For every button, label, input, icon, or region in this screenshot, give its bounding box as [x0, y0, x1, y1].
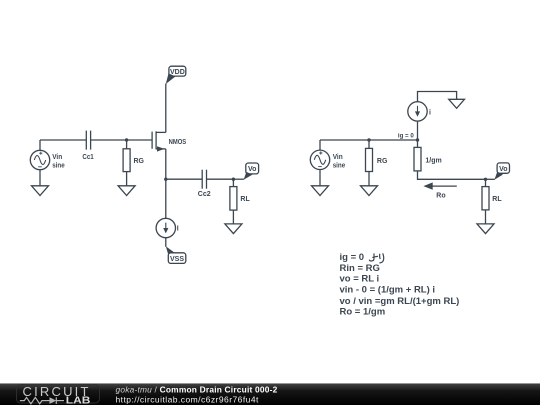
resistor 1/gm	[414, 147, 421, 171]
ground under RG (right)	[361, 186, 378, 196]
glyph yori	[369, 254, 383, 263]
wire current source top to ground	[418, 92, 457, 102]
footer bar	[0, 383, 540, 405]
svg-text:Vin: Vin	[333, 154, 343, 161]
wire Cc1 to gate node	[91, 139, 153, 141]
logo CIRCUIT text	[17, 385, 100, 403]
svg-text:ig = 0: ig = 0	[398, 132, 414, 139]
resistor RL (right)	[482, 187, 489, 210]
wire current source to 1/gm	[417, 121, 419, 147]
node output junction (left)	[232, 178, 235, 181]
wire Vin bottom lead (right)	[319, 170, 321, 187]
svg-text:I: I	[177, 225, 179, 232]
wire current source to VSS	[165, 238, 167, 247]
wire node to RG (right)	[368, 140, 370, 148]
ground top right	[449, 99, 465, 108]
net flag VSS	[166, 246, 186, 263]
arrow Ro	[423, 182, 456, 189]
wire top rail (right)	[320, 139, 418, 141]
svg-text:sine: sine	[52, 163, 65, 170]
wire RG to ground (right)	[368, 172, 370, 187]
svg-text:Vo: Vo	[499, 166, 507, 173]
wire Vin to Cc1	[40, 139, 86, 141]
wire drain to VDD	[165, 84, 167, 133]
svg-text:Rin = RG: Rin = RG	[340, 263, 380, 274]
logo resistor zigzag and diode	[20, 397, 64, 404]
svg-text:RL: RL	[492, 196, 502, 203]
svg-text:vo = RL i: vo = RL i	[340, 274, 380, 285]
node ig junction	[416, 138, 419, 141]
wire Vin top lead	[39, 140, 41, 150]
svg-text:NMOS: NMOS	[169, 139, 187, 146]
ground under Vin (left)	[32, 186, 49, 196]
svg-text:RL: RL	[240, 196, 250, 203]
wire source node to Cc2	[166, 178, 202, 180]
svg-text:RG: RG	[377, 158, 388, 165]
svg-text:http://circuitlab.com/c6zr96r7: http://circuitlab.com/c6zr96r76fu4t	[116, 394, 259, 404]
wire Cc2 to output node	[207, 178, 234, 180]
svg-text:VSS: VSS	[170, 256, 184, 263]
svg-text:VDD: VDD	[170, 69, 185, 76]
ground under Vin (right)	[312, 186, 329, 196]
ground under RL (right)	[477, 224, 494, 234]
wire output stub (right)	[486, 178, 495, 180]
capacitor Cc1	[86, 131, 90, 150]
svg-text:1/gm: 1/gm	[425, 158, 441, 165]
resistor RL (left)	[230, 187, 237, 211]
capacitor Cc2	[202, 170, 206, 189]
node source junction	[164, 178, 167, 181]
resistor RG (right)	[366, 148, 373, 171]
svg-text:Ro = 1/gm: Ro = 1/gm	[340, 307, 386, 318]
svg-text:Vo: Vo	[248, 166, 256, 173]
current source i	[408, 102, 427, 121]
wire node to RL (right)	[485, 179, 487, 186]
net flag Vo (right)	[494, 163, 509, 180]
node gate junction	[125, 138, 128, 141]
wire output node stub	[233, 178, 244, 180]
node RG junction (right)	[367, 138, 370, 141]
current source I	[156, 218, 175, 237]
svg-text:vin - 0 = (1/gm + RL) i: vin - 0 = (1/gm + RL) i	[340, 285, 436, 296]
resistor RG (left)	[123, 149, 130, 172]
wire 1/gm to output node (right)	[418, 171, 486, 179]
wire node to RL (left)	[232, 179, 234, 186]
wire node to RG	[126, 140, 128, 149]
wire source down to node	[165, 149, 167, 179]
svg-text:vo / vin =gm RL/(1+gm RL): vo / vin =gm RL/(1+gm RL)	[340, 296, 460, 307]
net flag VDD	[166, 66, 186, 84]
svg-text:sine: sine	[333, 163, 346, 170]
svg-text:Ro: Ro	[436, 193, 445, 200]
svg-text:ig = 0: ig = 0	[340, 252, 365, 263]
svg-text:Cc2: Cc2	[198, 191, 211, 198]
svg-text:RG: RG	[134, 158, 145, 165]
wire RL to ground (left)	[232, 210, 234, 224]
net flag Vo (left)	[244, 163, 259, 180]
ground under RG (left)	[118, 186, 135, 196]
svg-text:i: i	[429, 109, 431, 116]
wire RL to ground (right)	[485, 210, 487, 224]
wire Vin bottom lead	[39, 170, 41, 186]
ground under RL (left)	[225, 224, 242, 234]
wire source node to current source	[165, 179, 167, 218]
node output junction (right)	[484, 178, 487, 181]
voltage source Vin (right)	[310, 150, 329, 169]
svg-text:goka-tmu / Common Drain Circui: goka-tmu / Common Drain Circuit 000-2	[116, 384, 278, 394]
voltage source Vin (left)	[30, 150, 49, 169]
wire RG to ground	[126, 172, 128, 186]
svg-text:Cc1: Cc1	[82, 154, 93, 161]
svg-text:LAB: LAB	[66, 396, 91, 405]
transistor NMOS	[152, 131, 166, 151]
svg-text:Vin: Vin	[52, 154, 62, 161]
wire Vin top lead (right)	[319, 140, 321, 150]
